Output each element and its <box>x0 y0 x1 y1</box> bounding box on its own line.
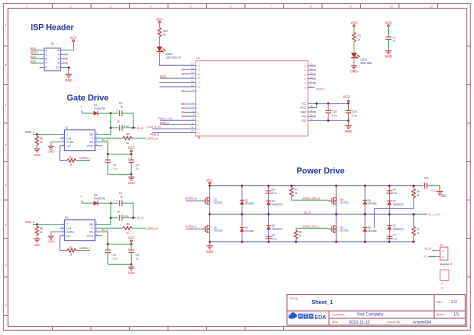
svg-text:TN4007W: TN4007W <box>272 203 284 206</box>
svg-text:2N7002: 2N7002 <box>340 202 349 205</box>
svg-text:+: + <box>80 105 82 109</box>
svg-text:UP5488: UP5488 <box>245 203 254 206</box>
svg-text:TN4007W: TN4007W <box>94 107 106 110</box>
svg-text:GND: GND <box>65 78 73 82</box>
svg-text:Your Company: Your Company <box>357 312 385 317</box>
svg-text:PWM_A: PWM_A <box>25 130 35 134</box>
svg-text:AC_A: AC_A <box>304 211 311 214</box>
svg-text:A: A <box>5 23 7 27</box>
svg-text:0.1u: 0.1u <box>272 192 277 195</box>
svg-text:Anson684: Anson684 <box>413 319 432 324</box>
svg-text:AC_A_INV: AC_A_INV <box>428 213 440 216</box>
svg-text:2N7002: 2N7002 <box>214 202 223 205</box>
svg-text:0.1u: 0.1u <box>332 114 338 118</box>
svg-text:UP5488: UP5488 <box>368 230 377 233</box>
svg-text:AC_A_INV: AC_A_INV <box>424 256 436 259</box>
svg-text:AC_A: AC_A <box>425 248 432 251</box>
svg-text:GATEA_L: GATEA_L <box>185 225 197 229</box>
svg-text:0.1u: 0.1u <box>352 114 358 118</box>
svg-text:MOSI: MOSI <box>160 76 167 79</box>
svg-text:SCLK: SCLK <box>30 56 37 59</box>
svg-text:10: 10 <box>56 66 60 70</box>
svg-text:GND: GND <box>345 130 353 134</box>
svg-text:UP5488: UP5488 <box>368 203 377 206</box>
svg-text:LED2: LED2 <box>166 52 173 56</box>
svg-text:VCC: VCC <box>343 95 351 99</box>
svg-text:GATEA_DRV_L: GATEA_DRV_L <box>302 225 320 228</box>
svg-text:AVCC: AVCC <box>300 107 307 110</box>
svg-text:ISP Header: ISP Header <box>31 23 75 32</box>
svg-text:RESET: RESET <box>316 88 325 91</box>
svg-text:H: H <box>5 303 7 307</box>
svg-text:U1: U1 <box>197 56 201 60</box>
svg-text:VCC: VCC <box>128 146 136 150</box>
svg-text:TN4007W: TN4007W <box>393 203 405 206</box>
svg-text:1/1: 1/1 <box>454 312 460 317</box>
svg-text:AC_A: AC_A <box>102 139 109 142</box>
svg-text:B: B <box>5 63 7 67</box>
svg-text:Company:: Company: <box>332 312 345 316</box>
svg-text:U2: U2 <box>65 126 69 130</box>
svg-text:MISO: MISO <box>30 60 36 63</box>
svg-text:GATEA_DRV_H: GATEA_DRV_H <box>302 197 320 200</box>
svg-text:Date:: Date: <box>332 320 339 324</box>
svg-text:GND: GND <box>34 153 42 157</box>
svg-text:0.1u: 0.1u <box>272 238 277 241</box>
svg-text:AC_A: AC_A <box>137 127 144 130</box>
svg-text:1.0: 1.0 <box>451 299 457 304</box>
svg-text:G: G <box>5 263 7 267</box>
svg-text:C1: C1 <box>393 36 397 40</box>
svg-text:E: E <box>5 183 7 187</box>
svg-text:AREF: AREF <box>300 111 307 114</box>
svg-text:P6: P6 <box>51 42 55 46</box>
svg-text:0.1u: 0.1u <box>432 190 437 193</box>
svg-text:C10: C10 <box>424 177 429 180</box>
svg-text:UP5488: UP5488 <box>245 230 254 233</box>
svg-text:Gate Drive: Gate Drive <box>67 93 109 103</box>
svg-text:PWM_B: PWM_B <box>150 133 160 136</box>
svg-text:GND: GND <box>48 149 56 153</box>
svg-text:TITLE:: TITLE: <box>290 296 299 300</box>
svg-text:GND: GND <box>385 55 393 59</box>
svg-text:PWM_A_INV: PWM_A_INV <box>158 118 173 121</box>
svg-text:TN4007W: TN4007W <box>393 228 405 231</box>
svg-text:GATEA_H: GATEA_H <box>147 137 159 140</box>
svg-text:VCC: VCC <box>70 36 78 40</box>
svg-text:VCC: VCC <box>301 102 306 105</box>
svg-text:2022-11-12: 2022-11-12 <box>349 319 370 324</box>
svg-text:PWM_A: PWM_A <box>160 122 170 125</box>
svg-text:0.1u: 0.1u <box>113 168 118 171</box>
svg-text:RED LED: RED LED <box>361 61 372 65</box>
svg-text:C: C <box>5 103 7 107</box>
svg-text:LED1: LED1 <box>361 57 368 61</box>
svg-text:Sheet_1: Sheet_1 <box>312 300 333 306</box>
svg-text:R12: R12 <box>163 29 168 33</box>
svg-text:Sheet:: Sheet: <box>436 312 445 316</box>
svg-text:R1: R1 <box>358 34 362 38</box>
svg-text:GND: GND <box>206 250 214 254</box>
svg-text:2N7002: 2N7002 <box>214 230 223 233</box>
svg-text:RESET: RESET <box>30 52 39 55</box>
svg-text:GND: GND <box>350 70 358 74</box>
svg-text:GATEA_L: GATEA_L <box>80 157 92 160</box>
svg-text:Drawn By:: Drawn By: <box>388 320 402 324</box>
svg-text:MOSI: MOSI <box>30 47 36 50</box>
svg-text:GND: GND <box>128 181 136 185</box>
svg-text:VCC: VCC <box>87 144 94 148</box>
svg-text:D: D <box>5 143 7 147</box>
svg-text:PWM_B_INV: PWM_B_INV <box>147 126 162 129</box>
svg-text:Header 2: Header 2 <box>440 262 453 266</box>
svg-text:GND: GND <box>301 115 307 118</box>
svg-text:GATEA_H: GATEA_H <box>185 196 197 200</box>
svg-text:2N7002: 2N7002 <box>340 230 349 233</box>
svg-text:0.1u: 0.1u <box>393 192 398 195</box>
svg-text:LO: LO <box>67 144 72 148</box>
svg-text:EDA: EDA <box>315 315 326 321</box>
svg-text:GND: GND <box>439 194 447 198</box>
svg-text:GND: GND <box>301 120 307 123</box>
svg-text:0.1u: 0.1u <box>393 238 398 241</box>
svg-text:LED-0603_R: LED-0603_R <box>166 55 181 59</box>
svg-text:TN4007W: TN4007W <box>272 228 284 231</box>
svg-text:REV:: REV: <box>437 300 444 304</box>
svg-text:Power Drive: Power Drive <box>297 165 345 175</box>
